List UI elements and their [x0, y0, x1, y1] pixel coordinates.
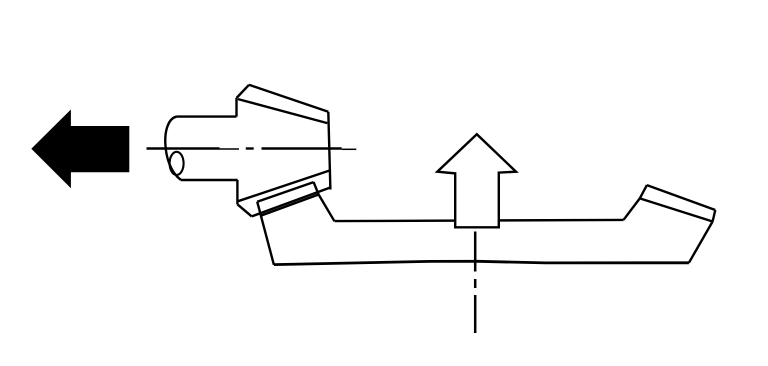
direction arrow (filled black, pointing left): [31, 110, 129, 189]
cone flange left cap: [237, 204, 251, 216]
cone lower-left vertical edge: [236, 180, 238, 204]
dish left surface slant: [319, 195, 335, 222]
dish left outer side edge: [257, 202, 274, 265]
dish right rim cap left: [640, 185, 647, 198]
dish (tray cross-section): [257, 182, 715, 265]
cone right vertical edge: [328, 112, 330, 190]
cylinder (shaft) body: [165, 117, 237, 180]
dish left rim outer edge: [257, 182, 313, 202]
cone flange bottom edge: [252, 188, 331, 217]
vertical centerline (dash-dot axis of dish): [474, 232, 477, 334]
cylinder end-face ellipse: [170, 152, 184, 175]
dish left rim inner edge: [261, 195, 319, 216]
cone left vertical edge: [235, 98, 237, 117]
wire: cylinder top line: [177, 115, 237, 117]
cone inner surface line: [238, 99, 327, 123]
dish right surface slant: [624, 198, 640, 219]
dish right rim inner edge: [640, 198, 713, 221]
cylinder left cap arc: [165, 117, 181, 180]
dish bottom edge: [274, 261, 689, 264]
cone flange top edge: [238, 170, 330, 201]
cone (tapered head): [237, 85, 331, 217]
cone top edge: [249, 85, 328, 112]
dish right rim cap right: [713, 210, 716, 222]
dish right rim outer edge: [647, 185, 715, 210]
up arrow (hollow, white filled): [437, 134, 516, 227]
dish top surface line: [335, 220, 624, 221]
cone top-left chamfer: [237, 85, 250, 98]
horizontal centerline (dash-dot axis of cylinder): [147, 147, 357, 150]
wire: cylinder bottom line: [181, 179, 238, 181]
dish right outer side edge: [689, 222, 713, 263]
dish left rim cap: [314, 182, 319, 194]
